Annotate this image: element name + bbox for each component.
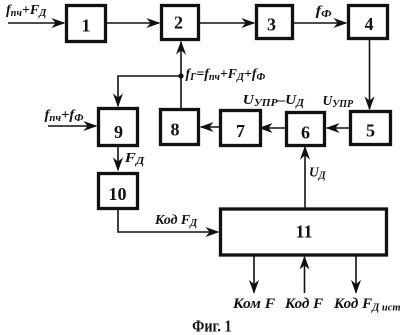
svg-text:11: 11 bbox=[295, 222, 312, 242]
svg-text:2: 2 bbox=[174, 13, 183, 33]
svg-text:6: 6 bbox=[301, 123, 310, 143]
svg-text:3: 3 bbox=[267, 15, 276, 35]
svg-text:4: 4 bbox=[365, 14, 374, 34]
svg-text:Фиг. 1: Фиг. 1 bbox=[192, 318, 232, 335]
svg-text:fГ=fпч+FД+fФ: fГ=fпч+FД+fФ bbox=[186, 66, 266, 83]
svg-text:8: 8 bbox=[171, 120, 180, 140]
svg-text:10: 10 bbox=[109, 184, 127, 204]
svg-text:7: 7 bbox=[236, 121, 245, 141]
svg-text:1: 1 bbox=[82, 16, 91, 36]
svg-text:9: 9 bbox=[114, 122, 123, 142]
svg-text:Ком F: Ком F bbox=[232, 295, 275, 312]
svg-text:Код F: Код F bbox=[284, 296, 323, 312]
svg-text:5: 5 bbox=[366, 121, 375, 141]
